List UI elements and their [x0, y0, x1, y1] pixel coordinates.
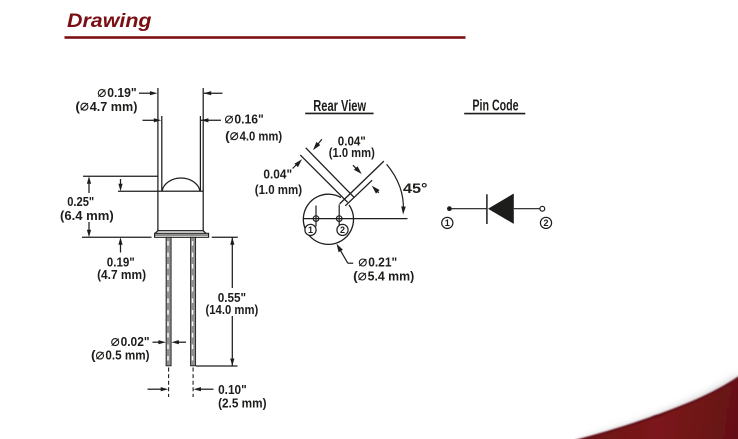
label 14.0 mm — [206, 302, 259, 317]
pin2 tick — [338, 204, 340, 226]
dim 0.55 arrow down — [230, 316, 234, 366]
label dia 0.21 in — [359, 255, 397, 270]
dim arrow 0.10 right — [194, 387, 214, 391]
label dia 0.16 in — [226, 112, 264, 127]
extension line outer-right — [202, 88, 204, 191]
dim arrow 0.02 right — [171, 340, 186, 344]
svg-text:Rear View: Rear View — [313, 98, 366, 115]
svg-text:Drawing: Drawing — [67, 10, 152, 32]
subtitle Pin Code underline — [464, 113, 525, 115]
extension line outer-left — [157, 88, 159, 191]
dim arrow 0.16 right — [201, 118, 221, 122]
circled number 2 rear — [337, 224, 348, 235]
lead right tip extension dashed — [192, 368, 194, 398]
rear horizontal axis line — [303, 218, 407, 220]
svg-text:(6.4 mm): (6.4 mm) — [60, 208, 114, 223]
arrow at lead1 upper — [313, 139, 322, 150]
dim arrow 0.02 left — [153, 340, 166, 344]
leader dia 0.21 — [337, 244, 354, 264]
subtitle Pin Code — [472, 97, 518, 114]
label 4.7 mm — [97, 267, 146, 282]
title Drawing — [67, 10, 152, 32]
corner swoosh — [575, 377, 738, 439]
subtitle Rear View underline — [305, 112, 373, 114]
extension line dome top — [83, 175, 158, 177]
extension line flange bottom right — [212, 236, 238, 238]
rear package circle — [303, 194, 353, 244]
LED body — [158, 191, 203, 231]
wire anode to pin2 — [514, 208, 540, 210]
lead1 bent lower edge — [300, 155, 347, 202]
wire pin1 to cathode — [449, 208, 487, 210]
svg-text:4.7 mm): 4.7 mm) — [90, 99, 138, 114]
arrow at lead1 lower — [293, 159, 302, 168]
lead right — [191, 237, 196, 365]
label dia 0.19 in — [98, 85, 136, 100]
svg-text:2: 2 — [340, 225, 345, 235]
pin2 terminal open circle — [540, 206, 545, 211]
svg-text:(4.7 mm): (4.7 mm) — [97, 267, 146, 282]
label 0.25 in — [67, 194, 94, 209]
diode anode triangle — [488, 194, 514, 224]
dim 0.55 arrow up — [230, 237, 234, 288]
svg-text:45°: 45° — [403, 181, 428, 196]
arrow at lead2 upper — [353, 165, 362, 174]
dim 0.19h arrow up — [118, 237, 122, 252]
svg-text:5.4 mm): 5.4 mm) — [368, 269, 415, 284]
title underline — [65, 36, 466, 39]
dim arrow 0.10 left — [148, 387, 169, 391]
label 0.19 in — [107, 254, 135, 269]
lead2 bent upper edge — [340, 161, 384, 204]
svg-text:(: ( — [91, 348, 96, 363]
lead left — [166, 237, 171, 365]
circled number 2 pincode — [540, 217, 551, 228]
extension line inner-right — [199, 116, 201, 191]
body bevel right — [203, 231, 206, 234]
body bevel left — [155, 231, 158, 234]
label 0.55 in — [218, 290, 246, 305]
diode cathode bar — [486, 194, 488, 224]
corner swoosh shadow — [575, 374, 738, 439]
pin1 hole — [313, 216, 319, 222]
extension line flange bottom left — [82, 236, 152, 238]
circled number 1 pincode — [442, 217, 453, 228]
circled number 1 rear — [305, 224, 316, 235]
arrow at lead2 lower — [372, 186, 380, 194]
svg-text:(: ( — [353, 269, 358, 284]
lead left tip extension dashed — [168, 368, 170, 398]
label 6.4 mm — [60, 208, 114, 223]
svg-text:(: ( — [225, 128, 230, 143]
LED dome lens — [162, 178, 200, 191]
pin1 tick — [315, 206, 317, 227]
svg-text:(14.0 mm): (14.0 mm) — [206, 302, 259, 317]
label 45 deg — [403, 181, 428, 196]
pin1 terminal dot — [447, 206, 452, 211]
svg-text:(1.0 mm): (1.0 mm) — [255, 182, 302, 197]
dim 0.25 arrow up — [87, 176, 91, 193]
pin2 hole — [336, 216, 342, 222]
dim 0.19h arrow down — [118, 179, 122, 191]
label dia 4.0 mm — [225, 128, 282, 143]
dim arrow 0.19 left — [139, 91, 157, 95]
45 degree arc — [387, 164, 406, 214]
svg-text:1: 1 — [445, 218, 450, 228]
label dia 4.7 mm — [75, 99, 137, 114]
label 0.04 left — [263, 166, 292, 181]
extension line lead bottom — [196, 365, 238, 367]
dim arrow 0.19 right — [204, 91, 223, 95]
label dia 5.4 mm — [353, 269, 414, 284]
lead2 bent lower edge — [345, 180, 372, 206]
extension line body top — [118, 190, 158, 192]
label 2.5 mm — [218, 396, 266, 411]
svg-text:2: 2 — [543, 218, 548, 228]
label 0.10 in — [218, 382, 247, 397]
corner swoosh notch — [651, 415, 663, 417]
svg-text:(: ( — [75, 99, 80, 114]
label 1.0 mm left — [255, 182, 302, 197]
label dia 0.02 in — [112, 334, 150, 349]
svg-text:0.21": 0.21" — [368, 255, 397, 270]
flange — [155, 233, 209, 237]
svg-text:(1.0 mm): (1.0 mm) — [329, 145, 375, 160]
extension line inner-left — [161, 116, 163, 191]
svg-text:Pin Code: Pin Code — [472, 97, 518, 114]
dim 0.25 arrow down — [87, 222, 91, 237]
svg-text:0.25": 0.25" — [67, 194, 94, 209]
subtitle Rear View — [313, 98, 366, 115]
svg-text:0.04": 0.04" — [263, 166, 292, 181]
label dia 0.5 mm — [91, 348, 150, 363]
svg-text:(2.5 mm): (2.5 mm) — [218, 396, 266, 411]
label 0.04 top — [338, 133, 366, 148]
svg-text:4.0 mm): 4.0 mm) — [240, 128, 283, 143]
lead1 bent upper edge — [306, 148, 355, 198]
svg-text:1: 1 — [308, 225, 313, 235]
svg-text:0.16": 0.16" — [234, 112, 263, 127]
dim arrow 0.16 left — [143, 118, 162, 122]
label 1.0 mm top — [329, 145, 375, 160]
svg-text:0.5 mm): 0.5 mm) — [105, 348, 149, 363]
